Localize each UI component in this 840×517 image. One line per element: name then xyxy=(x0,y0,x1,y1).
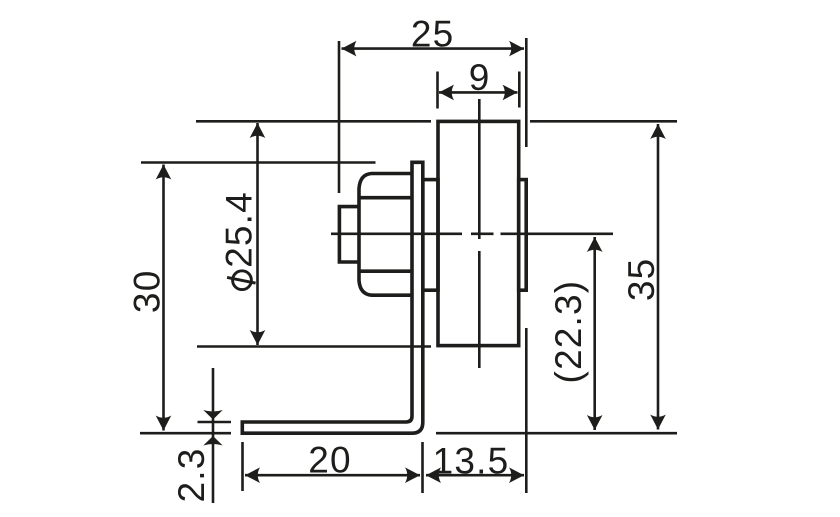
extension line: bracket bottom, left side (for 30 / 2.3) xyxy=(140,432,231,435)
axle boss flange on outer face of wheel xyxy=(519,180,527,291)
arrowhead (22.3) top xyxy=(587,237,603,252)
hex bolt head silhouette xyxy=(359,174,411,296)
svg-text:9: 9 xyxy=(469,57,491,98)
arrowhead phi 25.4 top xyxy=(250,123,266,138)
extension line: bracket plate top (for 30) xyxy=(141,161,376,164)
arrowhead 35 top xyxy=(650,124,666,139)
arrowhead 30 bottom xyxy=(156,416,172,431)
svg-text:13.5: 13.5 xyxy=(433,440,510,481)
dimension line 9 xyxy=(439,91,518,94)
extension line: flange outer face, bottom (for 13.5) xyxy=(525,328,528,493)
diameter symbol slash of phi 25.4 label xyxy=(227,277,256,283)
extension line: wheel bottom, left side (for phi 25.4) xyxy=(197,345,431,348)
extension line: wheel top, right side (for 35) xyxy=(530,120,677,123)
dimension line 30 xyxy=(162,165,165,431)
arrowhead 13.5 left xyxy=(426,467,441,483)
dimension line (22.3) xyxy=(593,237,596,430)
arrowhead 2.3 upper (points down) xyxy=(203,410,222,420)
dimension line 20 xyxy=(245,474,420,477)
arrowhead 35 bottom xyxy=(650,415,666,430)
dimension line 25 xyxy=(342,47,525,50)
hub washer between bracket and wheel xyxy=(423,180,438,291)
arrowhead phi 25.4 bottom xyxy=(250,330,266,345)
roller wheel body (side view) xyxy=(438,121,519,345)
horizontal axle center line (dashed) xyxy=(331,233,613,236)
arrowhead 25 right xyxy=(509,41,524,57)
svg-text:(22.3): (22.3) xyxy=(548,280,589,384)
extension line: wheel left face (for 9) xyxy=(436,72,439,109)
hex bolt head facet lines xyxy=(361,198,412,272)
arrowhead (22.3) bottom xyxy=(587,415,603,430)
dimension line 2.3 xyxy=(212,368,215,503)
arrowhead 20 right xyxy=(405,467,420,483)
dimension line phi 25.4 xyxy=(256,123,259,345)
extension line: wheel top, left side (for phi 25.4) xyxy=(196,120,431,123)
extension line: bracket bottom, right side (for 22.3 / 35) xyxy=(436,432,677,435)
svg-text:30: 30 xyxy=(127,270,168,314)
L-shaped mounting bracket xyxy=(242,162,422,433)
arrowhead 25 left xyxy=(342,41,357,57)
arrowhead 9 right xyxy=(503,85,518,101)
arrowhead 2.3 lower (points up) xyxy=(203,436,222,446)
bolt shank protruding tip xyxy=(339,207,360,262)
svg-text:20: 20 xyxy=(308,440,352,481)
svg-text:25.4: 25.4 xyxy=(219,191,260,268)
extension line: bracket vertical leg face (for 20 / 13.5) xyxy=(421,442,424,493)
arrowhead 9 left xyxy=(439,85,454,101)
extension line: bracket foot left end (for 20) xyxy=(241,442,244,491)
arrowhead 13.5 right xyxy=(509,467,524,483)
extension line: bolt tip face (for 25) xyxy=(338,41,341,193)
dimension line 13.5 xyxy=(426,474,524,477)
dimension line 35 xyxy=(657,124,660,430)
extension line: wheel right face (for 9) xyxy=(518,72,521,108)
extension line: bracket foot top surface (for 2.3) xyxy=(198,421,232,424)
diameter symbol circle of phi 25.4 label xyxy=(233,271,252,290)
extension line: flange outer face, top (for 25) xyxy=(525,38,528,147)
svg-text:2.3: 2.3 xyxy=(171,447,212,502)
svg-text:35: 35 xyxy=(621,258,662,302)
arrowhead 20 left xyxy=(245,467,260,483)
svg-text:25: 25 xyxy=(411,13,455,54)
arrowhead 30 top xyxy=(156,165,172,180)
vertical wheel center line (dashed) xyxy=(478,99,481,368)
